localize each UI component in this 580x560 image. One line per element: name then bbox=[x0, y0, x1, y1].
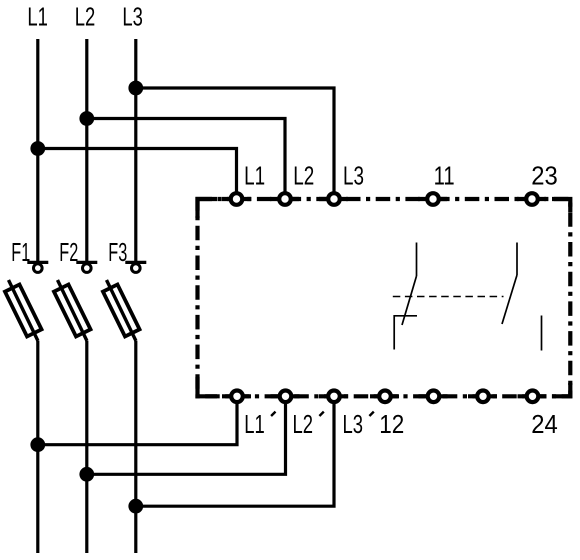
svg-text:23: 23 bbox=[531, 160, 558, 190]
wire L2 tap horizontal bbox=[87, 119, 285, 194]
enclosure corner bottom-left bbox=[198, 377, 218, 396]
svg-text:24: 24 bbox=[531, 409, 558, 439]
enclosure corner top-left bbox=[198, 199, 218, 218]
terminal L2 bbox=[279, 193, 291, 205]
terminal L1 bbox=[231, 193, 243, 205]
svg-text:L2: L2 bbox=[293, 409, 314, 439]
wire phase L1 vertical upper bbox=[36, 39, 39, 262]
terminal (unlabeled a) bbox=[428, 391, 440, 403]
wire phase L3 vertical upper bbox=[134, 39, 137, 262]
terminal L1' bbox=[231, 391, 243, 403]
fuse F3 (fuse-disconnector) bbox=[103, 262, 146, 341]
wire phase L3 vertical lower bbox=[134, 341, 137, 553]
junction dot L1 return bbox=[30, 437, 45, 452]
terminal L3' bbox=[328, 391, 340, 403]
terminal stubs bottom edge bbox=[222, 394, 547, 398]
svg-text:L1: L1 bbox=[27, 2, 48, 32]
terminal L2' bbox=[280, 391, 292, 403]
enclosure corner bottom-right bbox=[552, 383, 570, 396]
junction dot L2 tap bbox=[79, 111, 94, 126]
terminal 23 bbox=[526, 193, 538, 205]
terminal 11 bbox=[427, 193, 439, 205]
wire phase L2 vertical upper bbox=[85, 39, 88, 262]
wire phase L2 vertical lower bbox=[85, 341, 88, 553]
mechanical link (dashed) bbox=[393, 296, 504, 298]
junction dot L3 tap bbox=[128, 81, 143, 96]
svg-text:L1: L1 bbox=[244, 409, 265, 439]
junction dot L1 tap bbox=[30, 141, 45, 156]
contact NC 11-12 bbox=[394, 243, 417, 350]
svg-text:F2: F2 bbox=[59, 237, 78, 267]
terminal (unlabeled b) bbox=[477, 391, 489, 403]
contact NO 23-24 bbox=[502, 243, 542, 351]
wire L3' return bbox=[136, 402, 334, 506]
terminal 12 bbox=[379, 391, 391, 403]
wire L3 tap horizontal bbox=[136, 88, 334, 193]
svg-text:L2: L2 bbox=[75, 2, 96, 32]
fuse F2 (fuse-disconnector) bbox=[54, 262, 97, 341]
terminal 24 bbox=[527, 391, 539, 403]
wire L1' return bbox=[38, 402, 237, 445]
junction dot L3 return bbox=[128, 499, 143, 514]
fuse F1 (fuse-disconnector) bbox=[5, 262, 48, 341]
wire L1 tap horizontal bbox=[38, 149, 237, 194]
svg-text:L1: L1 bbox=[244, 160, 265, 190]
junction dot L2 return bbox=[79, 467, 94, 482]
svg-text:12: 12 bbox=[379, 409, 404, 439]
terminal L3 bbox=[328, 193, 340, 205]
wire L2' return bbox=[87, 402, 286, 474]
svg-text:11: 11 bbox=[434, 160, 455, 190]
enclosure corner top-right bbox=[552, 199, 570, 212]
svg-text:L3: L3 bbox=[343, 409, 364, 439]
svg-text:L2: L2 bbox=[293, 160, 314, 190]
terminal stubs top edge bbox=[222, 197, 546, 201]
svg-text:L3: L3 bbox=[343, 160, 364, 190]
svg-text:F3: F3 bbox=[108, 237, 127, 267]
relay enclosure dashed boundary bbox=[198, 199, 571, 396]
wire phase L1 vertical lower bbox=[36, 341, 39, 553]
svg-text:L3: L3 bbox=[122, 2, 142, 32]
